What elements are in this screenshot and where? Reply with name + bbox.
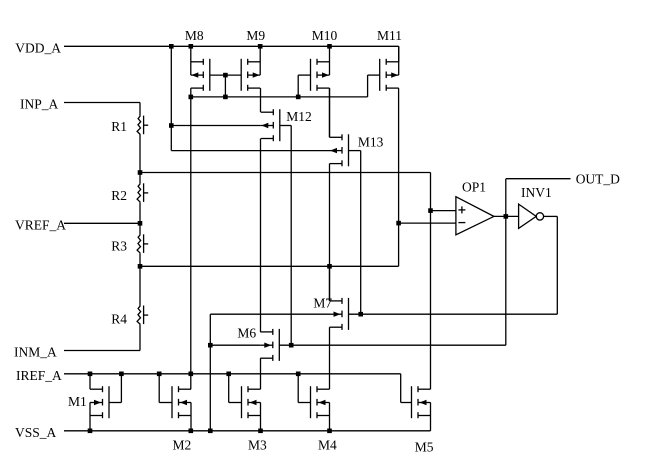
- wire INP down to R1: [139, 103, 141, 116]
- transistor M1 (M1): [90, 386, 109, 418]
- wire R4 down to INM: [139, 324, 141, 350]
- resistor R4: [137, 306, 148, 325]
- node op+ tee: [428, 208, 433, 213]
- node M11 drain tee: [396, 221, 401, 226]
- wire M2 source to VSS: [190, 403, 192, 431]
- svg-text:INM_A: INM_A: [14, 345, 57, 360]
- wire M3 gate: [228, 374, 230, 403]
- svg-text:OUT_D: OUT_D: [576, 172, 620, 187]
- svg-text:R4: R4: [111, 312, 127, 327]
- wire M8 source to VDD: [190, 46, 192, 75]
- net VREF_A: [64, 222, 140, 224]
- svg-text:M2: M2: [173, 438, 192, 453]
- transistor M8 (M8): [191, 59, 210, 91]
- transistor M13 (M13): [330, 134, 349, 166]
- svg-text:M3: M3: [248, 438, 267, 453]
- net VSS_A rail: [64, 430, 431, 432]
- wire R1 to node A: [139, 135, 141, 184]
- net bias rail y97: [191, 96, 368, 98]
- net INV1 out to M7/M13 gates: [349, 313, 558, 315]
- wire M12 bulk: [171, 125, 260, 127]
- node M7 gate junction: [358, 312, 363, 317]
- svg-text:M6: M6: [237, 326, 256, 341]
- net OP1 out to M6/M12 gates: [279, 344, 506, 346]
- wire M13 source up: [329, 88, 331, 137]
- transistor M9 (M9): [241, 59, 260, 91]
- svg-text:M9: M9: [246, 28, 265, 43]
- net INP_A: [64, 102, 140, 104]
- wire nwell bulk feed from VDD: [170, 46, 172, 150]
- wire R3 to node B: [139, 253, 141, 306]
- transistor M6 (M6): [260, 329, 279, 361]
- svg-text:INP_A: INP_A: [20, 97, 59, 112]
- wire M11 drain down: [398, 88, 400, 266]
- op-amp OP1: [456, 197, 494, 235]
- node M12 bulk tee: [169, 123, 174, 128]
- svg-text:R2: R2: [111, 188, 127, 203]
- wire M1 source to VSS: [89, 403, 91, 431]
- svg-text:M5: M5: [415, 440, 434, 455]
- wire INV1 output: [544, 215, 558, 217]
- transistor M11 (M11): [380, 59, 399, 91]
- transistor M2 (M2): [172, 386, 191, 418]
- svg-text:M12: M12: [286, 109, 312, 124]
- node VDD junctions: [169, 44, 174, 49]
- wire M11 gate: [368, 74, 380, 76]
- wire M1 gate to IREF: [109, 402, 121, 404]
- wire bias column M8 drain to M2 drain: [190, 97, 192, 389]
- inverter INV1: [519, 204, 544, 228]
- wire op+ vertical: [430, 173, 432, 390]
- wire OUT_D: [506, 178, 571, 180]
- transistor M12 (M12): [261, 109, 280, 141]
- wire M8-M9 gate tie: [210, 74, 241, 76]
- wire M7 bulk: [210, 313, 329, 315]
- net op- from R3/R4 node: [140, 265, 399, 267]
- wire M7 source down to M4: [329, 327, 331, 389]
- wire M5 gate from IREF end: [400, 374, 402, 403]
- wire M13 gate: [349, 150, 361, 152]
- net IREF_A rail: [64, 373, 401, 375]
- svg-text:R1: R1: [111, 119, 127, 134]
- wire to op-amp plus input: [431, 210, 456, 212]
- wire gate tie down to bias rail: [224, 75, 226, 97]
- node M6 bulk tee: [208, 343, 213, 348]
- wire M6 bulk: [210, 344, 260, 346]
- node R3-R4: [138, 264, 143, 269]
- net OUT_D riser: [505, 179, 507, 346]
- node bias rail junctions: [189, 95, 194, 100]
- svg-text:M1: M1: [68, 394, 87, 409]
- transistor M4 (M4): [311, 386, 330, 418]
- svg-text:VSS_A: VSS_A: [15, 425, 57, 440]
- wire M12 drain down to M6: [260, 139, 262, 332]
- wire M10 drain down to M13: [329, 88, 331, 137]
- wire R2 to VREF node: [139, 202, 141, 234]
- wire M13 bulk: [171, 150, 329, 152]
- wire M10 gate: [298, 74, 310, 76]
- wire M7 drain up: [329, 266, 331, 301]
- wire M12 source up: [260, 97, 262, 112]
- resistor R3: [137, 234, 148, 253]
- svg-text:INV1: INV1: [521, 185, 552, 200]
- net op+ from R1/R2 node: [140, 172, 431, 174]
- wire M8 drain down: [190, 88, 192, 97]
- transistor M5 (M5): [412, 386, 431, 418]
- wire M10 source to VDD: [329, 46, 331, 75]
- svg-text:M11: M11: [377, 28, 402, 43]
- wire bulk column to VSS: [209, 314, 211, 431]
- svg-text:R3: R3: [111, 239, 127, 254]
- wire M1 drain to IREF: [89, 374, 91, 389]
- svg-text:OP1: OP1: [462, 179, 486, 194]
- wire op-amp output: [494, 215, 519, 217]
- net INM_A: [64, 350, 140, 352]
- node VSS junctions: [88, 429, 93, 434]
- svg-text:VREF_A: VREF_A: [15, 218, 66, 233]
- wire to op-amp minus input: [399, 222, 456, 224]
- transistor M7 (M7): [330, 298, 349, 330]
- svg-text:M13: M13: [358, 135, 384, 150]
- svg-text:M4: M4: [318, 438, 337, 453]
- wire M4 gate: [297, 374, 299, 403]
- transistor M3 (M3): [242, 386, 261, 418]
- node op-amp output: [504, 214, 509, 219]
- wire M5 source to VSS end: [430, 403, 432, 431]
- node M12 gate junction: [289, 343, 294, 348]
- wire M13 drain down to M7: [329, 164, 331, 301]
- resistor R1: [137, 116, 148, 135]
- net VDD_A rail: [64, 45, 399, 47]
- svg-text:IREF_A: IREF_A: [16, 368, 62, 383]
- transistor M10 (M10): [311, 59, 330, 91]
- wire M2 gate: [158, 374, 160, 403]
- wire M6 source down to M3: [260, 358, 262, 389]
- wire M9 drain down to bias rail: [260, 88, 262, 97]
- resistor R2: [137, 183, 148, 202]
- wire M9 source to VDD: [259, 46, 261, 75]
- node op- column junction: [327, 264, 332, 269]
- node VREF tap: [138, 221, 143, 226]
- svg-text:VDD_A: VDD_A: [15, 41, 61, 56]
- wire M11 source to VDD: [398, 46, 400, 75]
- node IREF junctions: [88, 372, 93, 377]
- wire VDD right end down into M11 source: [398, 46, 400, 62]
- svg-text:M10: M10: [312, 28, 338, 43]
- svg-text:M8: M8: [185, 28, 204, 43]
- wire M12 gate: [280, 125, 291, 127]
- wire M3 source to VSS: [260, 403, 262, 431]
- node M8 gate junction: [223, 73, 228, 78]
- node R1-R2: [138, 170, 143, 175]
- wire M4 source to VSS: [329, 403, 331, 431]
